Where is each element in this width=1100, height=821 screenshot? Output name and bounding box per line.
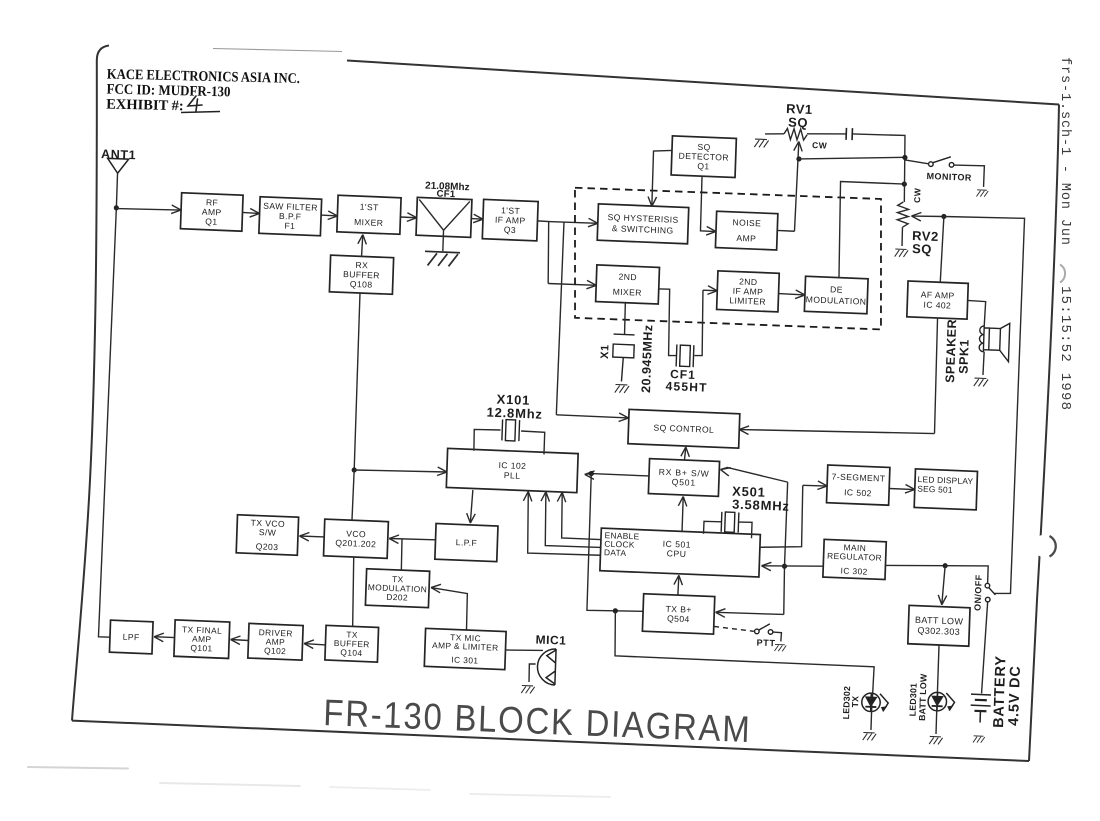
block RX BUFFER Q108	[329, 255, 393, 294]
block TX FINAL AMP Q101	[174, 620, 230, 659]
diode LED302	[861, 693, 888, 712]
label BATT LOW (LED301)	[917, 673, 929, 721]
block IC 501 CPU	[600, 528, 760, 577]
wire PLL down to LPF	[466, 490, 476, 523]
wire DATA to PLL	[522, 491, 603, 556]
plot timestamp text right margin	[1057, 57, 1072, 245]
svg-text:LPF: LPF	[123, 632, 140, 643]
svg-text:Q108: Q108	[350, 279, 373, 290]
svg-text:Q101: Q101	[190, 643, 212, 654]
potentiometer RV1	[784, 128, 807, 140]
block TX VCO SW Q203	[236, 515, 298, 555]
svg-text:Q1: Q1	[697, 161, 710, 171]
title block: FCC ID	[106, 81, 230, 100]
svg-text:CW: CW	[812, 140, 828, 151]
svg-text:20.945MHz: 20.945MHz	[639, 324, 655, 393]
wire X501 right lead	[738, 522, 752, 538]
wire RV1 wiper to monitor line	[799, 153, 905, 163]
wire CF1 to 2ND IF AMP path	[694, 290, 704, 356]
ground PTT	[774, 644, 786, 651]
crystal X1 20.945MHz symbol	[612, 334, 635, 382]
block LPF loop filter	[435, 524, 498, 562]
sheet border bottom edge	[72, 721, 1029, 761]
wire 1ST MIXER to filter	[400, 213, 416, 222]
label RV1	[786, 101, 813, 117]
antenna ANT1 symbol	[107, 158, 128, 173]
wire PTT to ground	[773, 632, 782, 641]
node RV1 wiper junction	[796, 156, 801, 161]
block NOISE AMP	[715, 211, 777, 250]
label 12.8Mhz	[486, 405, 543, 422]
label X101	[496, 392, 530, 408]
svg-text:IC 301: IC 301	[451, 655, 478, 666]
label LED302	[841, 686, 852, 720]
switch PTT with dashed link	[714, 622, 773, 635]
switch MONITOR	[928, 156, 954, 167]
wire SQ DETECTOR to NOISE AMP	[700, 176, 718, 235]
node demod to volume line	[902, 181, 907, 186]
wire LED302 to ground	[870, 702, 873, 730]
svg-text:MIC1: MIC1	[535, 632, 566, 647]
block LED DISPLAY SEG501	[914, 469, 977, 510]
wire antenna branch down to LPF	[98, 208, 124, 638]
svg-text:MIXER: MIXER	[354, 217, 384, 228]
wire B+ vertical to TX B+	[715, 608, 783, 619]
wire RX BUFFER up to 1ST MIXER	[357, 234, 366, 256]
svg-text:LIMITER: LIMITER	[729, 295, 766, 306]
wire DE MODULATION up	[837, 182, 904, 280]
svg-text:AMP: AMP	[736, 233, 756, 244]
svg-text:ON/OFF: ON/OFF	[973, 574, 984, 611]
antenna label ANT1	[101, 147, 136, 162]
svg-text:DATA: DATA	[604, 547, 627, 558]
block VCO Q201.202	[324, 519, 389, 558]
sheet border left edge	[72, 46, 109, 721]
svg-text:CPU: CPU	[667, 548, 687, 559]
label CW (RV2)	[912, 187, 923, 203]
svg-text:Q102: Q102	[264, 645, 286, 656]
node RV2 wiper junction	[941, 214, 946, 219]
label X1	[599, 344, 611, 359]
diode LED301	[928, 692, 955, 711]
label ON/OFF	[973, 574, 984, 611]
sheet title FR-130 BLOCK DIAGRAM	[323, 691, 752, 750]
battery 4.5V	[970, 694, 991, 723]
wire into SQ CONTROL left	[556, 410, 628, 421]
wire node to PLL	[354, 464, 447, 476]
svg-text:Q504: Q504	[667, 613, 690, 624]
svg-text:BATT LOW: BATT LOW	[917, 673, 929, 721]
svg-text:SEG 501: SEG 501	[917, 484, 953, 495]
wire branch down to SQ CONTROL	[556, 222, 564, 415]
svg-text:TX: TX	[850, 696, 860, 708]
svg-text:Q1: Q1	[205, 216, 218, 226]
ground LED301	[929, 736, 942, 744]
wire antenna to RF AMP	[116, 203, 181, 214]
svg-text:12.8Mhz: 12.8Mhz	[486, 405, 543, 422]
label SQ (RV1)	[788, 114, 808, 130]
wire regulator down to BATT LOW	[938, 565, 948, 604]
block 2ND MIXER	[596, 265, 660, 304]
ground speaker	[974, 378, 988, 387]
label SQ (RV2)	[912, 241, 932, 257]
node monitor tap	[902, 155, 907, 160]
svg-text:455HT: 455HT	[665, 379, 707, 395]
wire MAIN REG to CPU	[761, 562, 822, 573]
block TX B+ Q504	[642, 594, 714, 634]
filter CF1 21.08Mhz box symbol	[416, 197, 472, 252]
svg-text:ANT1: ANT1	[101, 147, 136, 162]
wire DRIVER to TX FINAL	[230, 636, 248, 645]
wire into 2ND IF AMP LIMITER	[703, 286, 718, 295]
svg-text:frs-1.sch-1 - Mon Jun: frs-1.sch-1 - Mon Jun	[1057, 57, 1072, 245]
wire filter to 1ST IF AMP	[471, 214, 483, 223]
block SQ CONTROL	[628, 409, 740, 448]
block 7-SEGMENT IC502	[827, 465, 890, 505]
wire VCO down to TX BUFFER	[351, 557, 355, 626]
block TX MODULATION D202	[365, 569, 429, 608]
label TX (LED302)	[850, 696, 860, 708]
wire into 2ND MIXER	[548, 279, 596, 289]
wire LED301 to ground	[936, 702, 937, 734]
wire switch to battery	[982, 602, 988, 694]
wire TX MIC to MIC1	[505, 649, 543, 652]
wire ENABLE to PLL	[556, 492, 602, 539]
ground under X1	[615, 384, 629, 393]
wire monitor left lead	[905, 160, 929, 164]
wire 2ND MIXER to X1	[624, 303, 625, 335]
wire RF AMP to SAW FILTER	[242, 208, 259, 217]
wire RV2 wiper to on-off switch	[931, 215, 1024, 594]
wire AF AMP down	[934, 318, 939, 434]
wire MAIN REG right	[886, 563, 946, 567]
wire up to RV1 wiper arrow	[791, 141, 803, 231]
svg-text:2ND: 2ND	[618, 272, 637, 283]
block AF AMP IC402	[907, 281, 968, 319]
label 455HT	[665, 379, 707, 395]
svg-text:NOISE: NOISE	[732, 217, 761, 228]
ground monitor	[976, 190, 988, 197]
punch hole lower	[1034, 535, 1057, 558]
wire Q3 right then down	[535, 221, 550, 284]
wire TX BUFFER to DRIVER	[304, 640, 326, 649]
node RX buffer PLL junction	[351, 467, 356, 472]
label 20.945MHz	[639, 324, 655, 393]
block SQ HYSTERISIS AND SWITCHING	[597, 204, 689, 244]
svg-text:SQ: SQ	[788, 114, 808, 130]
scan smudge marks bottom	[28, 767, 610, 797]
sheet border top edge	[347, 61, 1059, 105]
label 4.5V DC	[1006, 665, 1024, 726]
label CW (RV1)	[812, 140, 828, 151]
node TX B+ rail junction	[613, 608, 618, 613]
block 1ST MIXER	[337, 195, 401, 234]
speaker SPK1 symbol	[979, 322, 1010, 361]
svg-text:SPK1: SPK1	[956, 339, 971, 374]
svg-text:IC 102: IC 102	[498, 460, 526, 471]
wire RV2 wiper	[911, 212, 944, 222]
label MONITOR	[926, 171, 972, 183]
wire capacitor to volume bus	[850, 133, 906, 202]
label CF1 (1st)	[436, 189, 456, 201]
wire 7-SEGMENT to LED DISPLAY	[889, 484, 915, 494]
wire CLOCK to PLL	[539, 492, 602, 548]
wire wiper junction down to AF AMP	[940, 216, 944, 282]
wire RV1 to capacitor	[807, 132, 846, 135]
wire regulator to on-off switch	[945, 564, 989, 583]
wire MIC1 to ground	[529, 664, 536, 682]
wire B+ vertical	[783, 482, 788, 614]
wire X101 left lead	[473, 429, 500, 452]
svg-text:S/W: S/W	[259, 527, 277, 538]
wire RV2 bottom lead	[901, 227, 904, 246]
label SPK1	[956, 339, 971, 374]
svg-text:CF1: CF1	[436, 189, 456, 201]
svg-text:IC 502: IC 502	[844, 487, 872, 498]
block DRIVER AMP Q102	[248, 623, 303, 660]
switch ON/OFF	[985, 583, 996, 602]
wire 2ND IF AMP to DE MODULATION	[778, 289, 805, 299]
wire BATT LOW to LED301	[937, 645, 939, 702]
wire NOISE AMP up to RV1 wiper	[777, 229, 794, 232]
wire Q3 to SQ HYSTERISIS	[549, 217, 598, 227]
svg-text:L.P.F: L.P.F	[456, 537, 478, 548]
svg-text:MONITOR: MONITOR	[926, 171, 972, 183]
dashed squelch section enclosure	[571, 187, 886, 330]
label SPEAKER	[943, 319, 959, 383]
crystal X101 symbol	[502, 419, 520, 441]
block RX B+ SW Q501	[648, 459, 719, 497]
wire node down to VCO	[352, 470, 354, 520]
ground RV1	[754, 139, 768, 148]
wire TX FINAL to LPF	[154, 633, 175, 642]
wire 2ND MIXER to CF1 crystal	[657, 289, 679, 356]
wire monitor right lead	[953, 165, 984, 187]
ground battery	[973, 736, 985, 743]
node antenna junction	[114, 205, 119, 210]
label RV2	[912, 228, 939, 244]
block SAW FILTER B.P.F F1	[259, 197, 322, 236]
wire TX MIC to TX MODULATION	[430, 584, 468, 630]
wire AF AMP to SQ CONTROL	[739, 426, 934, 442]
wire CPU up to RX B+	[677, 496, 687, 531]
label MIC1	[535, 632, 566, 647]
wire X101 right lead	[520, 431, 544, 454]
svg-text:F1: F1	[284, 221, 295, 231]
block RF AMP Q1	[180, 193, 243, 231]
block DE MODULATION	[804, 276, 868, 314]
wire AF AMP to speaker	[967, 300, 986, 326]
microphone MIC1 symbol	[537, 648, 556, 685]
crystal filter CF1 455HT symbol	[676, 345, 694, 368]
wire SQ DETECTOR to SQ HYSTERISIS	[648, 150, 672, 207]
svg-text:Q3: Q3	[504, 225, 517, 235]
block 2ND IF AMP LIMITER	[717, 271, 780, 312]
svg-text:Q201.202: Q201.202	[335, 538, 376, 550]
wire X501 left lead	[703, 521, 721, 534]
node B+ and regulator junction	[782, 564, 787, 569]
svg-text:1'ST: 1'ST	[360, 202, 380, 213]
block TX MIC AMP LIMITER IC301	[424, 628, 506, 669]
wire RX B+ up to SQ CONTROL	[681, 447, 690, 460]
node regulator output	[942, 563, 947, 568]
wire TX B+ up to CPU	[674, 575, 683, 595]
svg-text:CW: CW	[912, 187, 923, 203]
svg-text:DE: DE	[830, 284, 843, 295]
svg-text:IC 402: IC 402	[923, 300, 951, 311]
block TX BUFFER Q104	[325, 625, 379, 662]
label 3.58MHz	[732, 497, 790, 514]
svg-text:4.5V DC: 4.5V DC	[1006, 665, 1024, 726]
svg-text:X1: X1	[599, 344, 611, 359]
wire LPF to VCO	[389, 535, 436, 545]
crystal X501 symbol	[721, 512, 739, 533]
block IC 102 PLL	[446, 448, 578, 492]
svg-text:PTT: PTT	[756, 638, 775, 649]
plot timestamp text right margin part 2	[1057, 286, 1073, 410]
wire B+ vertical to RX B+	[720, 467, 788, 482]
ground MIC1	[521, 685, 534, 693]
capacitor coupling C	[846, 128, 852, 140]
handwritten exhibit numeral 4 with underline	[181, 96, 220, 113]
svg-text:SQ: SQ	[912, 241, 932, 257]
svg-text:MIXER: MIXER	[613, 287, 643, 298]
block BATT LOW Q302.303	[908, 605, 970, 646]
svg-text:EXHIBIT #:: EXHIBIT #:	[106, 96, 184, 114]
wire into 7-SEGMENT	[803, 480, 828, 489]
punch hole upper	[1060, 265, 1065, 283]
block SQ DETECTOR Q1	[671, 136, 736, 178]
svg-text:PLL: PLL	[504, 470, 521, 481]
svg-text:3.58MHz: 3.58MHz	[732, 497, 790, 514]
wire antenna stem	[116, 174, 117, 208]
paper crease line top-left	[213, 49, 342, 52]
svg-text:D202: D202	[386, 592, 408, 603]
wire speaker to ground	[983, 352, 984, 375]
label PTT	[756, 638, 775, 649]
wire B+ down to TX B+ rail	[587, 474, 648, 613]
wire RX B+ to PLL	[585, 471, 649, 482]
wire VCO to TX VCO SW	[299, 532, 324, 541]
svg-text:Q501: Q501	[672, 477, 697, 488]
label LED301	[907, 683, 918, 717]
potentiometer RV2	[897, 202, 909, 228]
title block: company name	[107, 67, 300, 88]
wire RX BUFFER down to PLL node	[354, 293, 360, 470]
wire rail down to LED302	[613, 611, 876, 702]
svg-text:IC 302: IC 302	[840, 566, 867, 577]
block LPF output filter	[109, 620, 153, 654]
svg-text:Q203: Q203	[256, 541, 279, 552]
wire SAW FILTER to 1ST MIXER	[321, 211, 338, 220]
sheet border right edge	[1029, 105, 1059, 762]
label CF1 (2nd)	[670, 367, 696, 382]
ground under filter CF1	[425, 251, 460, 266]
svg-text:Q302.303: Q302.303	[917, 625, 960, 637]
svg-text:Q104: Q104	[340, 647, 362, 658]
label BATTERY	[991, 655, 1009, 728]
wire CPU to 7SEG riser	[760, 484, 804, 549]
label 21.08Mhz	[425, 181, 470, 194]
ground LED302	[863, 732, 876, 740]
block 1ST IF AMP Q3	[482, 199, 538, 240]
svg-text:15:15:52 1998: 15:15:52 1998	[1057, 286, 1073, 410]
svg-text:7-SEGMENT: 7-SEGMENT	[831, 471, 885, 483]
wire RV1 left lead	[765, 133, 784, 135]
node B+ junction at PLL	[589, 471, 594, 476]
block MAIN REGULATOR IC302	[823, 539, 886, 579]
title block: exhibit number	[106, 96, 184, 114]
ground RV2	[895, 249, 908, 257]
label X501	[732, 484, 766, 500]
wire LPF-VCO branch to TX MOD	[401, 539, 402, 570]
